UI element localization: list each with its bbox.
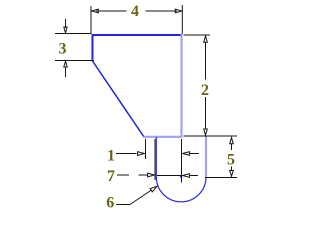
shape bottom edge (highlighted) — [144, 136, 183, 138]
shape top edge — [92, 34, 183, 36]
dimension 3 bottom arrowhead — [64, 61, 67, 67]
dimension 3 top stub — [65, 19, 67, 28]
dimension 3 top arrowhead — [64, 27, 67, 33]
svg-text:4: 4 — [131, 3, 139, 20]
shape right edge (highlighted) — [180, 35, 182, 138]
dimension 1 right arrowhead — [183, 152, 190, 156]
dimension 4 left arrowhead — [92, 9, 99, 13]
slot left edge — [155, 137, 157, 177]
dimension 1 left arrowhead — [138, 152, 145, 156]
dimension 1 extension line — [145, 139, 147, 159]
dimension 3 top extension line — [55, 33, 92, 35]
dimension 5 line lower segment — [231, 167, 233, 172]
dimension 6 arrowhead — [150, 186, 157, 192]
svg-text:1: 1 — [107, 147, 115, 164]
dimension 4 right extension line — [181, 5, 183, 34]
dimension 5 line upper segment — [231, 144, 233, 151]
dimension 3 bottom extension line — [55, 60, 94, 62]
shape chamfer diagonal — [93, 61, 145, 137]
dimension 6 leader diagonal — [130, 190, 152, 205]
dimension 4 line left segment — [96, 10, 127, 12]
dimension 7 extension line — [154, 139, 156, 180]
dimension 5 top arrowhead — [230, 138, 234, 144]
slot right edge (highlighted) — [205, 136, 207, 177]
dimension 7 leader dash a — [117, 174, 129, 176]
dimension 2 bottom extension line (shared with dimension 5 top) — [184, 135, 238, 137]
dimension 4 line right segment — [146, 10, 178, 12]
shape left edge — [92, 34, 94, 62]
slot bottom arc — [156, 177, 206, 202]
dimension 3 bottom stub — [65, 67, 67, 77]
dimension 4 right arrowhead — [175, 9, 181, 13]
dimension 4 left extension line — [90, 6, 92, 34]
dimension 7 right arrowhead — [183, 174, 190, 178]
dimension 7 inner line — [157, 175, 181, 177]
svg-text:2: 2 — [201, 82, 209, 99]
dimension 7 right shaft — [189, 175, 198, 177]
svg-text:3: 3 — [59, 40, 67, 57]
arc center point — [180, 176, 182, 178]
dimension 7 leader dash b — [139, 174, 148, 176]
dimension 1 right shaft — [189, 153, 199, 155]
dimension 2 line lower segment — [205, 97, 207, 130]
svg-text:6: 6 — [106, 194, 114, 211]
dimension 5 bottom arrowhead — [230, 171, 234, 177]
dimension 2 line upper segment — [205, 43, 207, 80]
dimension 5 bottom extension line — [205, 177, 237, 179]
shared right extension line below part — [181, 139, 183, 183]
dimension 7 left arrowhead — [148, 173, 155, 177]
svg-text:7: 7 — [107, 168, 115, 185]
dimension 1 leader line — [116, 153, 137, 155]
dimension 2 top extension line — [184, 34, 211, 36]
dimension 2 bottom arrowhead — [204, 129, 208, 135]
dimension 6 leader horizontal — [116, 204, 130, 206]
svg-text:5: 5 — [227, 151, 235, 168]
dimension 2 top arrowhead — [204, 36, 208, 42]
